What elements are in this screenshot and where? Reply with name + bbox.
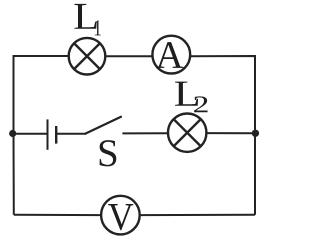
- switch S: right contact wire: [122, 132, 168, 134]
- label L2: [175, 82, 207, 113]
- wire: top side right segment + right side upper: [190, 56, 255, 133]
- wire: left side lower: [13, 134, 15, 215]
- node: right junction dot: [252, 130, 259, 137]
- lamp L1: [69, 38, 106, 75]
- wire: bottom side right segment: [140, 214, 255, 216]
- wire: middle branch, left dot to battery: [13, 133, 47, 135]
- wire: L2 to right dot: [207, 132, 255, 134]
- label S: [100, 140, 117, 166]
- wire: right side lower: [254, 133, 256, 215]
- label L1: [74, 4, 100, 35]
- voltmeter V: [101, 196, 140, 235]
- wire: bottom side left segment: [14, 214, 101, 216]
- wire: top side between L1 and ammeter: [105, 55, 153, 57]
- switch S: blade: [85, 117, 121, 134]
- wire: battery to switch pivot: [57, 133, 86, 135]
- wire: left side upper + top side left segment: [14, 56, 70, 134]
- lamp L2: [168, 114, 206, 152]
- ammeter A: [152, 36, 190, 74]
- battery cell: long plate: [47, 119, 49, 149]
- node: left junction dot: [9, 130, 16, 137]
- battery cell: short plate: [55, 126, 57, 144]
